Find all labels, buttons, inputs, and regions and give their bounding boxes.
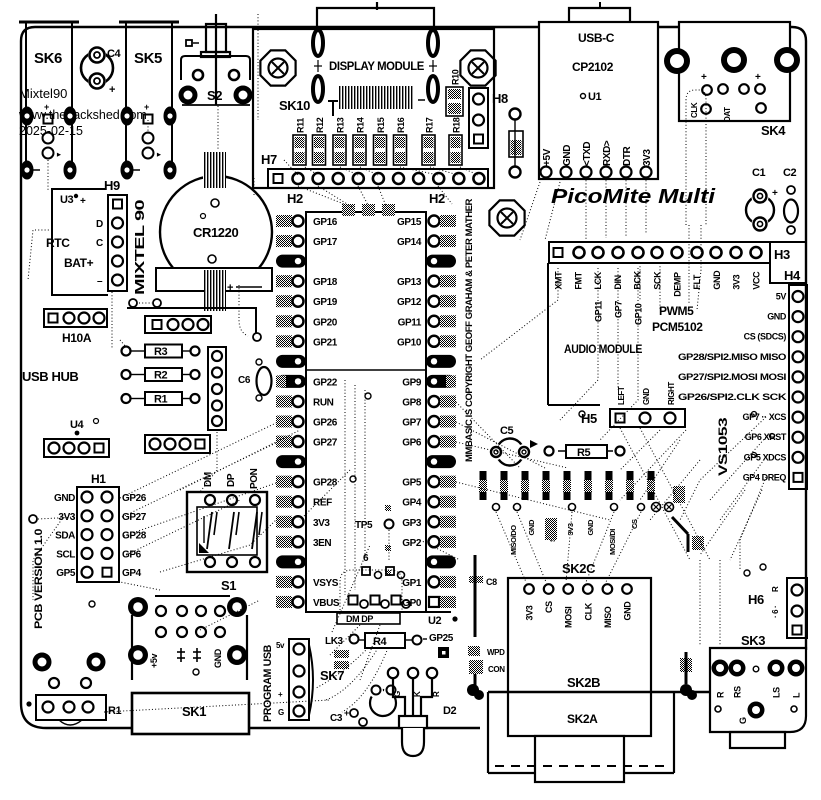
svg-text:R11: R11	[296, 118, 306, 133]
svg-text:GP4: GP4	[122, 568, 142, 579]
svg-text:SCK: SCK	[653, 271, 663, 290]
svg-text:3EN: 3EN	[313, 538, 331, 549]
svg-text:GND: GND	[623, 601, 633, 621]
svg-text:GND: GND	[642, 388, 651, 405]
svg-text:H2: H2	[287, 191, 303, 206]
svg-text:MMBASIC IS COPYRIGHT GEOFF GRA: MMBASIC IS COPYRIGHT GEOFF GRAHAM & PETE…	[464, 198, 474, 462]
svg-text:GP6: GP6	[122, 549, 142, 560]
svg-text:C4: C4	[107, 48, 122, 60]
svg-text:U3: U3	[60, 194, 74, 206]
svg-text:D: D	[96, 219, 103, 230]
svg-text:GP26: GP26	[122, 493, 147, 504]
svg-text:C8: C8	[486, 577, 497, 587]
svg-text:SDA: SDA	[55, 531, 75, 542]
svg-text:C5: C5	[500, 425, 514, 437]
svg-text:+: +	[772, 188, 778, 199]
svg-text:VBUS: VBUS	[313, 598, 340, 609]
svg-text:LCK: LCK	[593, 271, 603, 289]
svg-text:GP1: GP1	[402, 578, 422, 589]
svg-text:H2: H2	[429, 191, 445, 206]
svg-text:PROGRAM USB: PROGRAM USB	[262, 645, 274, 722]
svg-text:H9: H9	[104, 178, 120, 193]
svg-text:VS1053: VS1053	[716, 417, 730, 476]
svg-text:GND: GND	[213, 648, 223, 668]
svg-text:SK10: SK10	[279, 98, 310, 113]
svg-text:R2: R2	[154, 370, 168, 382]
svg-text:GP16: GP16	[313, 217, 338, 228]
svg-text:GP5: GP5	[402, 478, 422, 489]
svg-text:G: G	[738, 717, 748, 724]
svg-text:VCC: VCC	[752, 271, 762, 290]
svg-text:GP20: GP20	[313, 317, 338, 328]
svg-text:CS: CS	[544, 601, 554, 613]
svg-text:R3: R3	[154, 346, 168, 358]
svg-text:SK2B: SK2B	[567, 675, 600, 690]
svg-text:U1: U1	[588, 91, 602, 103]
svg-text:SK3: SK3	[741, 633, 765, 648]
svg-text:DEMP: DEMP	[672, 272, 682, 297]
svg-text:+: +	[44, 102, 49, 112]
svg-text:S2: S2	[207, 88, 222, 103]
svg-text:MISO/DO: MISO/DO	[509, 525, 518, 555]
svg-text:DM DP: DM DP	[346, 614, 373, 624]
svg-text:R15: R15	[376, 117, 386, 133]
svg-text:GP28: GP28	[313, 478, 338, 489]
svg-text:C2: C2	[783, 167, 797, 179]
svg-text:GP5: GP5	[56, 568, 76, 579]
svg-text:RXD>: RXD>	[602, 140, 613, 166]
svg-text:CP2102: CP2102	[572, 60, 614, 74]
svg-text:MIXTEL 90: MIXTEL 90	[132, 200, 147, 295]
svg-text:MOSI: MOSI	[564, 607, 574, 628]
svg-text:C6: C6	[238, 375, 251, 386]
svg-text:H1: H1	[91, 472, 106, 486]
svg-text:GP2: GP2	[402, 538, 422, 549]
svg-text:GP25: GP25	[429, 633, 454, 644]
svg-text:CS (SDCS): CS (SDCS)	[744, 332, 787, 342]
svg-text:DISPLAY MODULE: DISPLAY MODULE	[329, 59, 424, 73]
svg-text:GND: GND	[767, 312, 787, 322]
svg-text:GP4: GP4	[402, 498, 422, 509]
svg-text:GND: GND	[562, 145, 573, 166]
svg-text:BCK: BCK	[633, 270, 643, 289]
svg-text:· 6 ·: · 6 ·	[771, 606, 780, 618]
svg-text:3V3: 3V3	[642, 149, 653, 166]
svg-text:GP27/SPI2.MOSI MOSI: GP27/SPI2.MOSI MOSI	[678, 372, 786, 382]
svg-text:R18: R18	[452, 117, 462, 133]
svg-text:+: +	[80, 196, 86, 207]
svg-text:DM: DM	[203, 472, 214, 487]
svg-text:G: G	[278, 708, 284, 717]
svg-text:WPD: WPD	[487, 648, 505, 657]
svg-text:+: +	[227, 282, 233, 294]
svg-text:SK7: SK7	[320, 668, 344, 683]
svg-text:2025-02-15: 2025-02-15	[19, 124, 83, 138]
svg-text:+: +	[278, 690, 283, 699]
svg-text:R1: R1	[108, 705, 122, 717]
svg-text:C: C	[96, 238, 103, 249]
svg-text:C3: C3	[330, 713, 343, 724]
svg-text:H3: H3	[774, 247, 790, 262]
svg-text:R12: R12	[315, 117, 325, 133]
svg-text:VSYS: VSYS	[313, 578, 339, 589]
svg-text:R: R	[771, 586, 780, 592]
svg-text:GND: GND	[54, 493, 75, 504]
svg-text:GP8: GP8	[402, 397, 422, 408]
svg-text:SK6: SK6	[34, 50, 62, 67]
svg-text:U2: U2	[428, 615, 442, 627]
svg-text:K: K	[413, 691, 422, 697]
svg-text:SCL: SCL	[56, 549, 75, 560]
svg-text:GP14: GP14	[397, 237, 422, 248]
svg-text:GP15: GP15	[397, 217, 422, 228]
svg-text:REF: REF	[313, 498, 332, 509]
svg-text:R13: R13	[336, 117, 346, 133]
svg-text:R1: R1	[154, 394, 168, 406]
svg-text:S1: S1	[221, 578, 236, 593]
svg-text:MISO: MISO	[603, 606, 613, 628]
svg-text:GND: GND	[712, 270, 722, 290]
svg-text:LEFT: LEFT	[617, 386, 626, 405]
svg-text:3V3: 3V3	[525, 605, 535, 620]
svg-text:5v: 5v	[276, 641, 285, 650]
svg-text:L: L	[792, 692, 802, 698]
svg-text:GP6: GP6	[402, 438, 422, 449]
svg-text:GP22: GP22	[313, 377, 338, 388]
svg-text:H7: H7	[261, 152, 277, 167]
svg-text:D2: D2	[443, 705, 457, 717]
svg-text:GP26: GP26	[313, 418, 338, 429]
svg-text:USB-C: USB-C	[578, 31, 615, 45]
svg-text:GND: GND	[586, 519, 595, 535]
svg-text:+: +	[144, 102, 149, 112]
svg-text:+5v: +5v	[149, 654, 159, 668]
svg-text:PCB VERSION 1.0: PCB VERSION 1.0	[33, 529, 45, 629]
svg-text:–: –	[97, 276, 103, 287]
svg-text:+: +	[109, 84, 115, 96]
svg-text:SK5: SK5	[134, 50, 162, 67]
svg-text:DP: DP	[226, 473, 237, 487]
svg-text:R: R	[432, 691, 441, 697]
svg-text:FMT: FMT	[573, 271, 583, 289]
svg-text:<TXD: <TXD	[582, 142, 593, 166]
svg-text:GP27: GP27	[313, 438, 338, 449]
svg-text:H10A: H10A	[62, 331, 92, 345]
svg-text:H5: H5	[581, 411, 597, 426]
svg-text:GP9: GP9	[402, 377, 422, 388]
svg-text:SK4: SK4	[761, 123, 786, 138]
svg-text:LS: LS	[772, 687, 782, 698]
svg-text:GP11: GP11	[398, 317, 422, 328]
svg-text:SK1: SK1	[182, 704, 206, 719]
svg-text:RUN: RUN	[313, 397, 334, 408]
svg-text:GP13: GP13	[397, 277, 422, 288]
svg-text:RIGHT: RIGHT	[667, 382, 676, 405]
svg-text:AUDIO MODULE: AUDIO MODULE	[564, 342, 642, 356]
svg-text:C1: C1	[752, 167, 766, 179]
svg-text:GP28: GP28	[122, 531, 147, 542]
svg-text:GP7: GP7	[402, 418, 422, 429]
svg-text:PCM5102: PCM5102	[652, 320, 703, 334]
svg-text:R: R	[716, 691, 726, 698]
svg-text:GP5 XDCS: GP5 XDCS	[744, 452, 787, 462]
svg-text:R14: R14	[356, 117, 366, 133]
svg-text:TP5: TP5	[355, 520, 373, 531]
svg-text:GP12: GP12	[397, 297, 422, 308]
svg-text:MOSI/DI: MOSI/DI	[608, 529, 617, 555]
svg-text:3V3: 3V3	[313, 518, 330, 529]
svg-text:LK3: LK3	[325, 636, 344, 647]
svg-text:GP26/SPI2.CLK SCK: GP26/SPI2.CLK SCK	[678, 392, 787, 402]
svg-text:PicoMite Multi: PicoMite Multi	[551, 186, 716, 208]
svg-text:GP21: GP21	[313, 337, 338, 348]
svg-text:SK2A: SK2A	[567, 712, 598, 726]
svg-text:GP19: GP19	[313, 297, 338, 308]
svg-text:+: +	[344, 708, 349, 718]
svg-text:GP7 ·· XCS: GP7 ·· XCS	[742, 412, 786, 422]
svg-text:+5V: +5V	[542, 148, 553, 166]
svg-text:GP10: GP10	[397, 337, 422, 348]
svg-text:GP3: GP3	[402, 518, 422, 529]
svg-text:U4: U4	[70, 419, 85, 431]
svg-text:DAT: DAT	[723, 107, 732, 122]
svg-text:GP18: GP18	[313, 277, 338, 288]
svg-text:H4: H4	[784, 268, 801, 283]
svg-text:CON: CON	[488, 665, 505, 674]
svg-text:R10: R10	[451, 69, 461, 85]
svg-text:GND: GND	[527, 519, 536, 535]
svg-text:H6: H6	[748, 592, 764, 607]
svg-text:+: +	[701, 72, 707, 83]
svg-text:R17: R17	[425, 117, 435, 133]
svg-text:3V3: 3V3	[732, 274, 742, 289]
svg-text:RTC: RTC	[46, 236, 70, 250]
svg-text:USB HUB: USB HUB	[22, 369, 78, 384]
svg-text:RS: RS	[733, 686, 743, 698]
svg-text:PWM5: PWM5	[659, 304, 694, 318]
svg-text:GP28/SPI2.MISO MISO: GP28/SPI2.MISO MISO	[678, 352, 786, 362]
svg-text:CLK: CLK	[583, 602, 593, 620]
svg-text:CR1220: CR1220	[193, 225, 238, 240]
svg-text:5V: 5V	[776, 292, 787, 302]
svg-text:DTR: DTR	[622, 145, 633, 166]
svg-text:G: G	[393, 691, 402, 697]
svg-text:CLK: CLK	[690, 102, 699, 118]
svg-text:R16: R16	[396, 117, 406, 133]
svg-text:+: +	[755, 72, 761, 83]
svg-text:H8: H8	[492, 91, 508, 106]
svg-text:R5: R5	[577, 447, 591, 459]
svg-text:GP27: GP27	[122, 512, 147, 523]
svg-text:XMT: XMT	[554, 271, 564, 290]
svg-text:BAT+: BAT+	[64, 256, 94, 270]
svg-text:FLT: FLT	[692, 274, 702, 290]
svg-text:PON: PON	[249, 468, 260, 489]
svg-text:GP17: GP17	[313, 237, 338, 248]
